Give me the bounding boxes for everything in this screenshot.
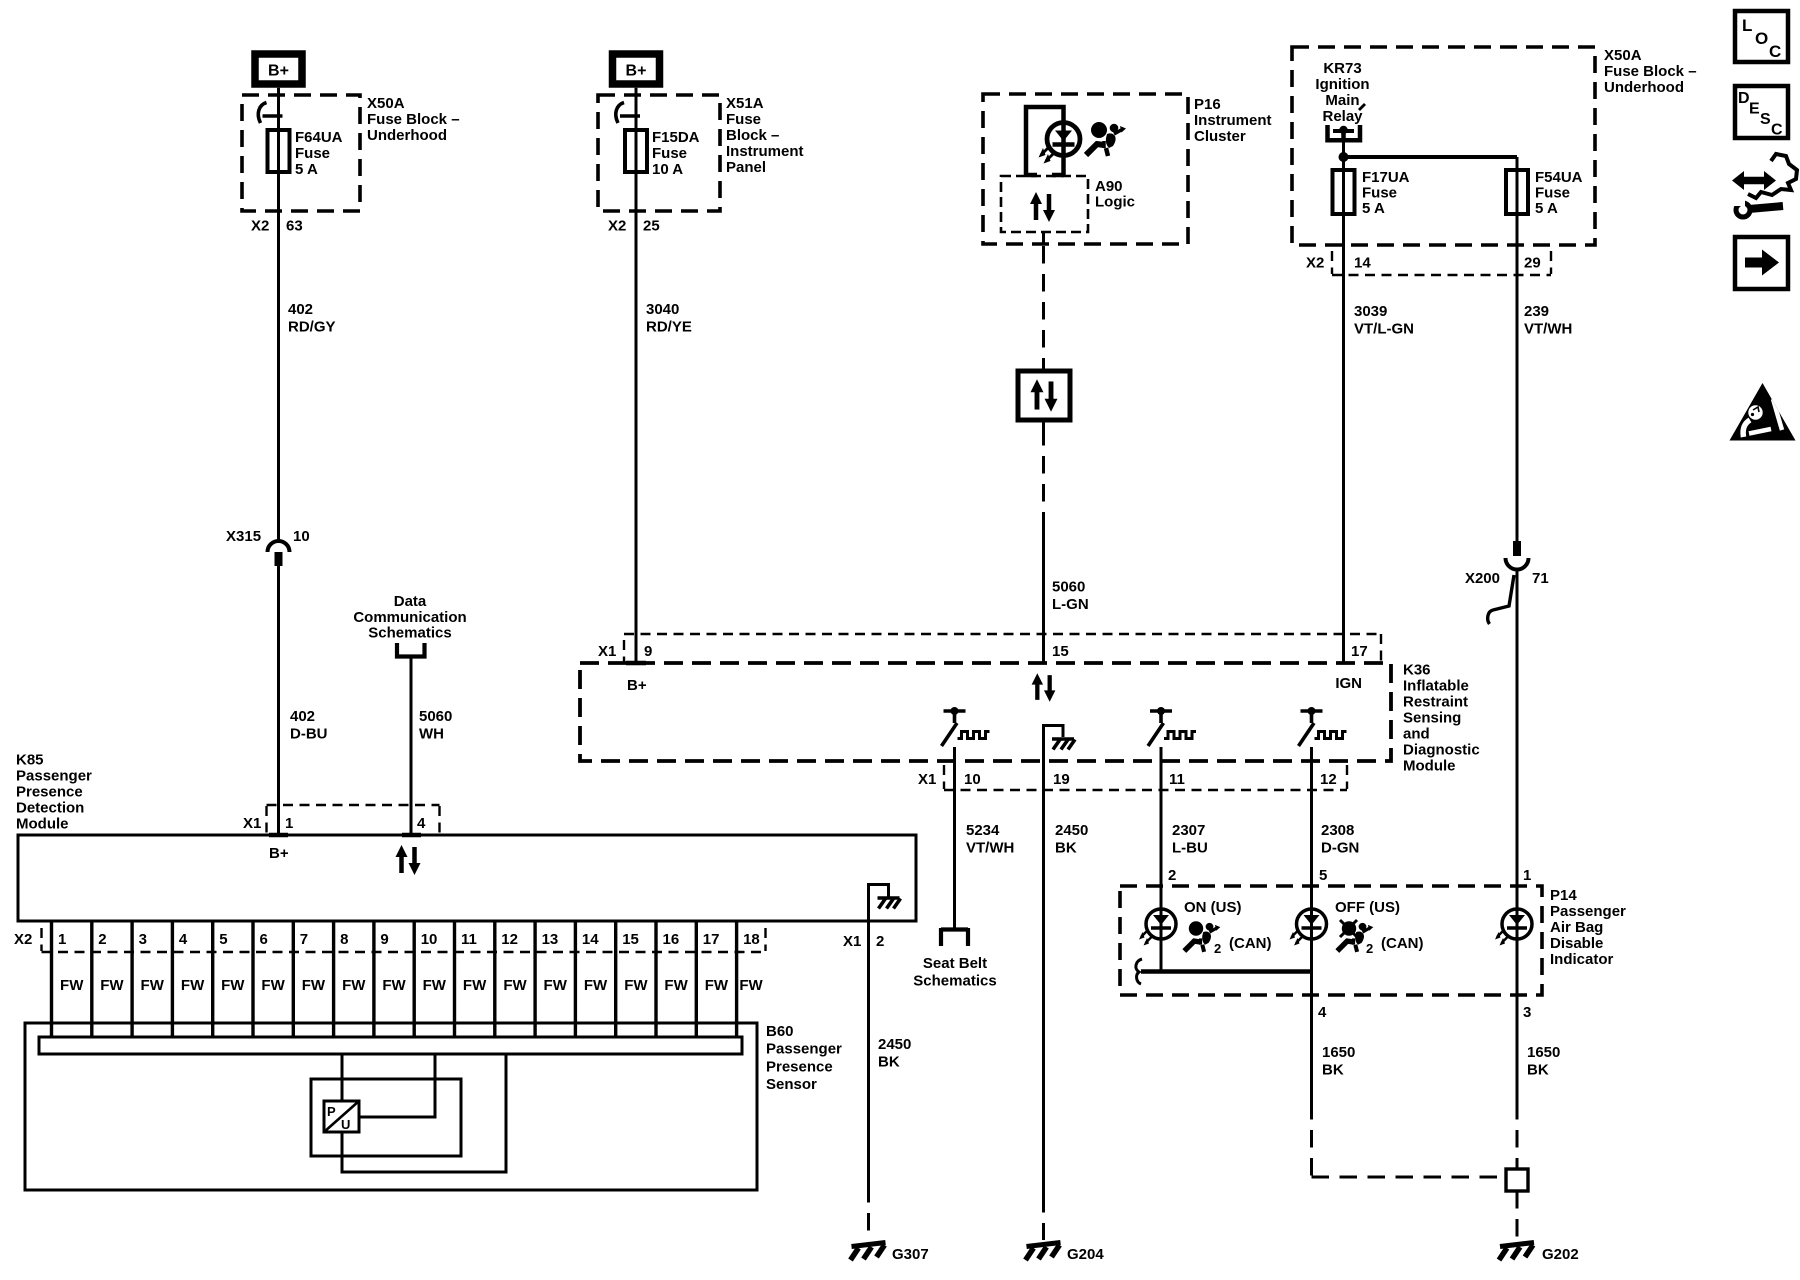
splice block xyxy=(1506,1169,1528,1191)
fuse F64UA 5A xyxy=(268,130,290,172)
dashed then solid wire 5060 L-GN to K36 pin 15 xyxy=(1042,420,1045,663)
inline connector X315 pin 10 xyxy=(268,541,290,566)
logic block A90 dashed box xyxy=(1001,176,1088,232)
indicator lamp OFF xyxy=(1290,909,1327,946)
crossed airbag icon (CAN) for OFF lamp xyxy=(1337,920,1373,952)
wire 5234 VT/WH from K36 pin 10 xyxy=(953,790,956,928)
svg-text:X2: X2 xyxy=(14,931,32,948)
lamp 1 wire through xyxy=(1516,909,1519,995)
svg-text:1: 1 xyxy=(285,815,293,832)
wire 2450 BK from K36 pin 19 to G204 xyxy=(1042,790,1045,1240)
svg-text:5: 5 xyxy=(219,931,227,948)
battery flag B+ (left) xyxy=(255,54,302,84)
18 feed wires K85 X2 to B60 xyxy=(52,921,737,1037)
svg-text:9: 9 xyxy=(380,931,388,948)
fuse F54UA 5A xyxy=(1506,170,1528,214)
wire 1650 BK pin 4 to splice xyxy=(1312,995,1507,1177)
fuse F15DA 10A xyxy=(625,130,647,172)
svg-text:Seat BeltSchematics: Seat BeltSchematics xyxy=(913,955,996,990)
svg-text:FW: FW xyxy=(664,977,688,994)
OFF lamp wire through to pin 4 xyxy=(1310,909,1313,995)
svg-text:X315: X315 xyxy=(226,528,261,545)
svg-text:14: 14 xyxy=(582,931,599,948)
svg-text:P: P xyxy=(327,1104,336,1119)
ground G204 xyxy=(1026,1243,1061,1261)
wire 402 D-BU from X315 to K85 pin 1 xyxy=(277,566,280,835)
svg-text:U: U xyxy=(341,1117,350,1132)
svg-text:G307: G307 xyxy=(892,1246,929,1263)
wire 2450 BK from K85 pin 2 to G307 xyxy=(867,921,870,1240)
module K36 connector X1 top strip xyxy=(624,634,1381,662)
svg-text:4: 4 xyxy=(1318,1004,1327,1021)
squib driver symbol at pin 12 xyxy=(1299,707,1347,790)
svg-text:29: 29 xyxy=(1524,255,1541,272)
squib driver symbol at pin 11 xyxy=(1148,707,1196,790)
svg-text:ON (US): ON (US) xyxy=(1184,899,1242,916)
inner electronics box xyxy=(311,1079,461,1156)
ON lamp wire through xyxy=(1160,909,1163,972)
wire through fuse F17UA xyxy=(1342,157,1345,663)
svg-text:B+: B+ xyxy=(269,845,289,862)
svg-text:16: 16 xyxy=(663,931,680,948)
svg-text:2307L-BU: 2307L-BU xyxy=(1172,822,1208,857)
svg-text:14: 14 xyxy=(1354,255,1371,272)
svg-text:FW: FW xyxy=(739,977,763,994)
ground G202 xyxy=(1499,1243,1534,1261)
svg-text:7: 7 xyxy=(300,931,308,948)
svg-text:1: 1 xyxy=(1523,867,1531,884)
wire from relay to junction xyxy=(1342,142,1345,157)
svg-text:12: 12 xyxy=(501,931,518,948)
ground G307 xyxy=(851,1243,886,1261)
forward reference arrow box xyxy=(1735,237,1788,289)
svg-text:3: 3 xyxy=(139,931,147,948)
svg-text:FW: FW xyxy=(423,977,447,994)
svg-text:FW: FW xyxy=(261,977,285,994)
svg-text:(CAN): (CAN) xyxy=(1229,935,1272,952)
svg-text:FW: FW xyxy=(624,977,648,994)
wire through fuse F54UA xyxy=(1516,157,1519,541)
svg-text:X1: X1 xyxy=(843,933,861,950)
svg-text:G204: G204 xyxy=(1067,1246,1104,1263)
terminal bars at K85 pins 1 and 4 xyxy=(269,833,421,838)
svg-text:E: E xyxy=(1749,101,1760,118)
svg-text:11: 11 xyxy=(1169,771,1185,788)
svg-text:FW: FW xyxy=(100,977,124,994)
svg-text:4: 4 xyxy=(179,931,188,948)
indicator P14 dashed box xyxy=(1120,886,1542,995)
air bag indicator lamp in P16 xyxy=(1039,123,1081,164)
internal wire P/U to bar xyxy=(359,1054,435,1117)
internal jumper ON-lamp to pin 4 branch xyxy=(1136,959,1312,984)
svg-text:5060L-GN: 5060L-GN xyxy=(1052,579,1089,614)
svg-text:S: S xyxy=(1760,111,1771,128)
svg-text:FW: FW xyxy=(584,977,608,994)
serial data arrows inside K36 xyxy=(1032,673,1056,702)
svg-text:2: 2 xyxy=(876,933,884,950)
serial data direction box xyxy=(1018,371,1070,420)
internal wire bar to P/U xyxy=(341,1054,344,1101)
svg-text:OFF (US): OFF (US) xyxy=(1335,899,1400,916)
internal ground of K85 to pin X1-2 xyxy=(869,885,901,922)
SIR caution triangle xyxy=(1730,383,1796,441)
svg-text:5: 5 xyxy=(1319,867,1327,884)
svg-text:FW: FW xyxy=(181,977,205,994)
svg-text:10: 10 xyxy=(293,528,310,545)
wire 239 VT/WH from X200 to P14 pin 1 xyxy=(1516,568,1519,909)
terminal clip in X51A xyxy=(616,103,640,124)
svg-text:X200: X200 xyxy=(1465,570,1500,587)
svg-text:10: 10 xyxy=(421,931,438,948)
dashed serial data wire from P16 to arrows box xyxy=(1042,246,1045,371)
svg-text:X1: X1 xyxy=(598,643,616,660)
svg-text:FW: FW xyxy=(463,977,487,994)
svg-text:IGN: IGN xyxy=(1335,675,1362,692)
svg-text:C: C xyxy=(1771,122,1783,139)
svg-text:X2: X2 xyxy=(608,218,626,235)
fuse block X51A dashed box xyxy=(598,95,720,211)
svg-text:B+: B+ xyxy=(626,63,647,80)
feed wire from junction to F54UA branch xyxy=(1344,155,1518,159)
svg-text:L: L xyxy=(1742,16,1752,35)
svg-text:KR73IgnitionMainRelay: KR73IgnitionMainRelay xyxy=(1315,60,1369,125)
airbag icon (CAN) for ON lamp xyxy=(1184,921,1220,952)
svg-text:D: D xyxy=(1738,90,1750,107)
svg-text:17: 17 xyxy=(1351,643,1368,660)
svg-text:71: 71 xyxy=(1532,570,1549,587)
svg-text:15: 15 xyxy=(1052,643,1069,660)
module K85 box xyxy=(18,835,916,921)
svg-text:X1: X1 xyxy=(918,771,936,788)
internal ground at pin 19 xyxy=(1044,726,1076,791)
svg-text:17: 17 xyxy=(703,931,720,948)
svg-text:FW: FW xyxy=(544,977,568,994)
wire 2308 D-GN from K36 pin 12 to P14 pin 5 xyxy=(1310,790,1313,909)
svg-text:G202: G202 xyxy=(1542,1246,1579,1263)
svg-text:8: 8 xyxy=(340,931,348,948)
svg-text:FW: FW xyxy=(342,977,366,994)
fuse block X50A (left) dashed box xyxy=(242,95,360,211)
svg-text:12: 12 xyxy=(1320,771,1337,788)
module K85 connector X1 top strip xyxy=(267,805,440,834)
wire 1650 BK pin 3 to splice xyxy=(1516,995,1519,1169)
sensor element bar xyxy=(39,1037,742,1054)
svg-text:10: 10 xyxy=(964,771,981,788)
battery flag B+ (second) xyxy=(613,54,660,84)
inline connector X200 pin 71 xyxy=(1488,541,1529,624)
svg-text:18: 18 xyxy=(743,931,760,948)
indicator lamp ON xyxy=(1139,909,1176,946)
wire 3040 RD/YE from B+ through fuse F15DA to K36 pin 9 xyxy=(635,88,638,663)
svg-text:FW: FW xyxy=(382,977,406,994)
svg-text:O: O xyxy=(1755,29,1768,48)
svg-text:19: 19 xyxy=(1053,771,1070,788)
svg-text:25: 25 xyxy=(643,218,660,235)
serial data arrows in A90 xyxy=(1030,192,1055,222)
off-page bracket to Seat Belt Schematics xyxy=(941,928,968,946)
svg-text:B+: B+ xyxy=(627,677,647,694)
terminal bar at K36 pin 9 xyxy=(626,661,646,666)
wire 402 RD/GY from B+ through fuse F64UA down to X315 xyxy=(277,88,280,543)
pin numbers 1-18 xyxy=(58,931,760,948)
terminal clip in X50A xyxy=(258,103,282,124)
svg-text:13: 13 xyxy=(542,931,559,948)
svg-text:X2: X2 xyxy=(1306,255,1324,272)
svg-text:X2: X2 xyxy=(251,218,269,235)
service/diagnostic icon (arrows and wrench) xyxy=(1732,154,1797,217)
pressure transducer P/U xyxy=(324,1101,359,1132)
svg-text:2: 2 xyxy=(1366,941,1373,956)
svg-text:2308D-GN: 2308D-GN xyxy=(1321,822,1359,857)
squib driver symbol at pin 10 xyxy=(942,707,990,790)
svg-text:1: 1 xyxy=(58,931,66,948)
FW wire designations xyxy=(60,977,763,994)
svg-text:4: 4 xyxy=(417,815,426,832)
svg-text:15: 15 xyxy=(622,931,639,948)
wire stub from A90 to P16 edge xyxy=(1042,232,1045,244)
svg-text:9: 9 xyxy=(644,643,652,660)
svg-text:FW: FW xyxy=(60,977,84,994)
description icon box DESC xyxy=(1735,86,1788,139)
indicator lamp for pin 1/3 xyxy=(1495,909,1532,946)
sensor B60 outer box xyxy=(25,1023,757,1190)
svg-text:FW: FW xyxy=(221,977,245,994)
svg-text:6: 6 xyxy=(260,931,268,948)
svg-text:63: 63 xyxy=(286,218,303,235)
lamp supply loop in P16 xyxy=(1026,107,1064,176)
svg-text:3: 3 xyxy=(1523,1004,1531,1021)
svg-text:2: 2 xyxy=(1214,941,1221,956)
svg-text:X1: X1 xyxy=(243,815,261,832)
svg-text:FW: FW xyxy=(503,977,527,994)
junction node xyxy=(1339,152,1349,162)
connector X2 strip of right fuse block xyxy=(1332,251,1551,275)
fuse block X50A (right) dashed box xyxy=(1292,47,1595,245)
svg-text:FW: FW xyxy=(302,977,326,994)
svg-text:11: 11 xyxy=(461,931,477,948)
locator icon box LOC xyxy=(1735,11,1788,62)
svg-text:FW: FW xyxy=(705,977,729,994)
instrument cluster P16 dashed box xyxy=(983,94,1188,244)
module K36 dashed box xyxy=(580,663,1391,761)
wire 5060 WH from bracket to K85 pin 4 xyxy=(410,659,413,836)
dashed wire splice to G202 xyxy=(1516,1191,1519,1240)
svg-text:C: C xyxy=(1769,42,1781,61)
fuse F17UA 5A xyxy=(1333,170,1355,214)
serial data arrows inside K85 xyxy=(396,845,421,875)
svg-text:B+: B+ xyxy=(268,63,289,80)
internal return wire xyxy=(342,1054,506,1172)
svg-text:2: 2 xyxy=(1168,867,1176,884)
svg-text:(CAN): (CAN) xyxy=(1381,935,1424,952)
module K36 connector X1 bottom strip xyxy=(944,765,1347,790)
svg-text:2: 2 xyxy=(98,931,106,948)
wire 2307 L-BU from K36 pin 11 to P14 pin 2 xyxy=(1160,790,1163,909)
air bag warning icon in P16 xyxy=(1086,122,1126,156)
svg-text:FW: FW xyxy=(141,977,165,994)
